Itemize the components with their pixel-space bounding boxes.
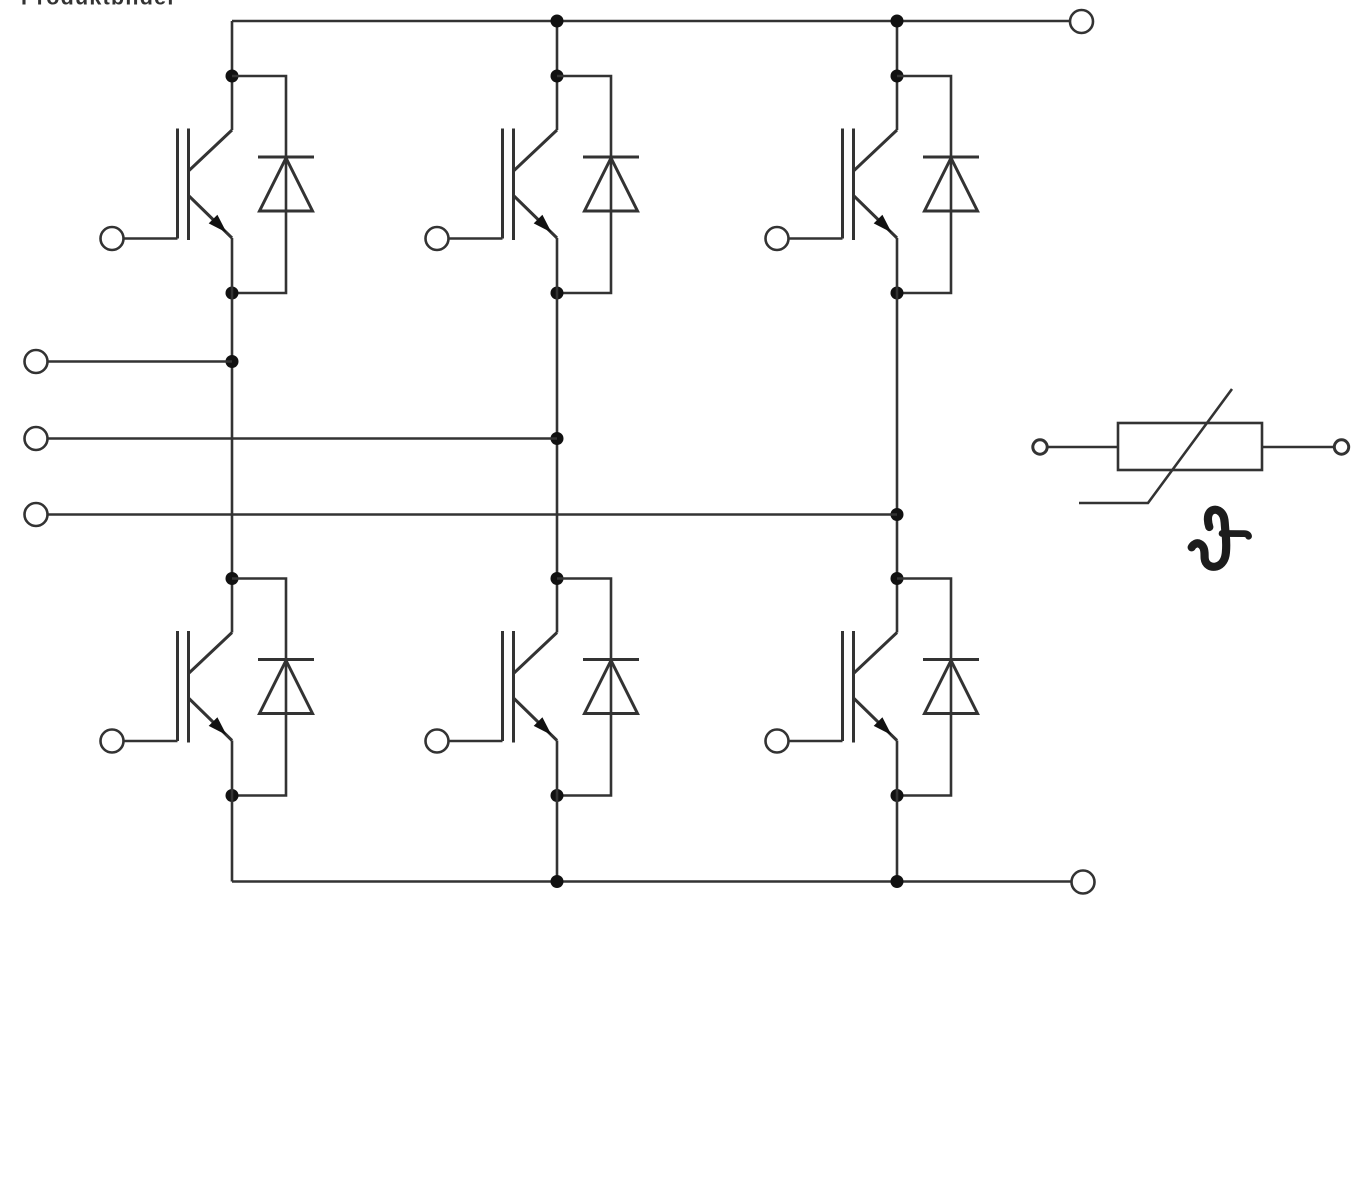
node DC- / leg 2 <box>551 875 564 888</box>
wire leg 2 from Q4 emitter to DC- bus <box>556 741 559 882</box>
terminal gate Q1 <box>101 227 124 250</box>
terminal gate Q4 <box>426 730 449 753</box>
diode D3 (freewheeling) <box>557 76 639 293</box>
wire Q4 gate lead <box>448 740 503 743</box>
wire leg 2 phase-V rail <box>556 238 559 633</box>
terminal DC- <box>1072 871 1095 894</box>
wire DC- bus (bottom rail) <box>232 880 1072 883</box>
wire phase W output <box>48 513 898 516</box>
terminal DC+ <box>1070 10 1093 33</box>
node Q1 emitter junction <box>226 287 239 300</box>
node Q4 collector junction <box>551 572 564 585</box>
node Q6 emitter junction <box>891 789 904 802</box>
terminal phase W <box>25 503 48 526</box>
node Q4 emitter junction <box>551 789 564 802</box>
node phase W tap <box>891 508 904 521</box>
wire Q6 gate lead <box>788 740 843 743</box>
node Q1 collector junction <box>226 70 239 83</box>
wire leg 2 from DC+ to Q3 collector <box>556 21 559 130</box>
wire Q5 gate lead <box>788 237 843 240</box>
terminal gate Q2 <box>101 730 124 753</box>
wire leg 3 from Q6 emitter to DC- bus <box>896 741 899 882</box>
wire Q2 gate lead <box>123 740 178 743</box>
node DC+ / leg 3 <box>891 15 904 28</box>
node phase U tap <box>226 355 239 368</box>
node Q6 collector junction <box>891 572 904 585</box>
node Q2 collector junction <box>226 572 239 585</box>
terminal gate Q5 <box>766 227 789 250</box>
node Q5 emitter junction <box>891 287 904 300</box>
transistor Q3 (IGBT) <box>503 129 558 241</box>
node DC- / leg 3 <box>891 875 904 888</box>
transistor Q4 (IGBT) <box>503 631 558 743</box>
wire leg 1 phase-U rail <box>231 238 234 633</box>
diode D5 (freewheeling) <box>897 76 979 293</box>
wire phase U output <box>48 360 233 363</box>
transistor Q5 (IGBT) <box>843 129 898 241</box>
wire DC+ bus (top rail) <box>232 20 1070 23</box>
diode D4 (freewheeling) <box>557 579 639 796</box>
transistor Q6 (IGBT) <box>843 631 898 743</box>
wire leg 3 from DC+ to Q5 collector <box>896 21 899 130</box>
label theta (thermistor temperature) <box>1192 510 1249 567</box>
wire thermistor right lead <box>1262 446 1334 449</box>
wire leg 3 phase-W rail <box>896 238 899 633</box>
terminal gate Q3 <box>426 227 449 250</box>
diode D2 (freewheeling) <box>232 579 314 796</box>
wire Q3 gate lead <box>448 237 503 240</box>
terminal phase V <box>25 427 48 450</box>
terminal gate Q6 <box>766 730 789 753</box>
terminal phase U <box>25 350 48 373</box>
node Q5 collector junction <box>891 70 904 83</box>
wire leg 1 from DC+ to Q1 collector <box>231 21 234 130</box>
node phase V tap <box>551 432 564 445</box>
node Q3 emitter junction <box>551 287 564 300</box>
wire leg 1 from Q2 emitter to DC- bus <box>231 741 234 882</box>
wire Q1 gate lead <box>123 237 178 240</box>
diode D6 (freewheeling) <box>897 579 979 796</box>
node Q3 collector junction <box>551 70 564 83</box>
node Q2 emitter junction <box>226 789 239 802</box>
terminal thermistor right <box>1334 440 1348 454</box>
transistor Q1 (IGBT) <box>178 129 233 241</box>
transistor Q2 (IGBT) <box>178 631 233 743</box>
node DC+ / leg 2 <box>551 15 564 28</box>
diode D1 (freewheeling) <box>232 76 314 293</box>
wire thermistor left lead <box>1048 446 1119 449</box>
svg-text:Produktbilder: Produktbilder <box>21 0 177 10</box>
terminal thermistor left <box>1033 440 1047 454</box>
thermistor R_NTC <box>1079 389 1262 503</box>
wire phase V output <box>48 437 558 440</box>
